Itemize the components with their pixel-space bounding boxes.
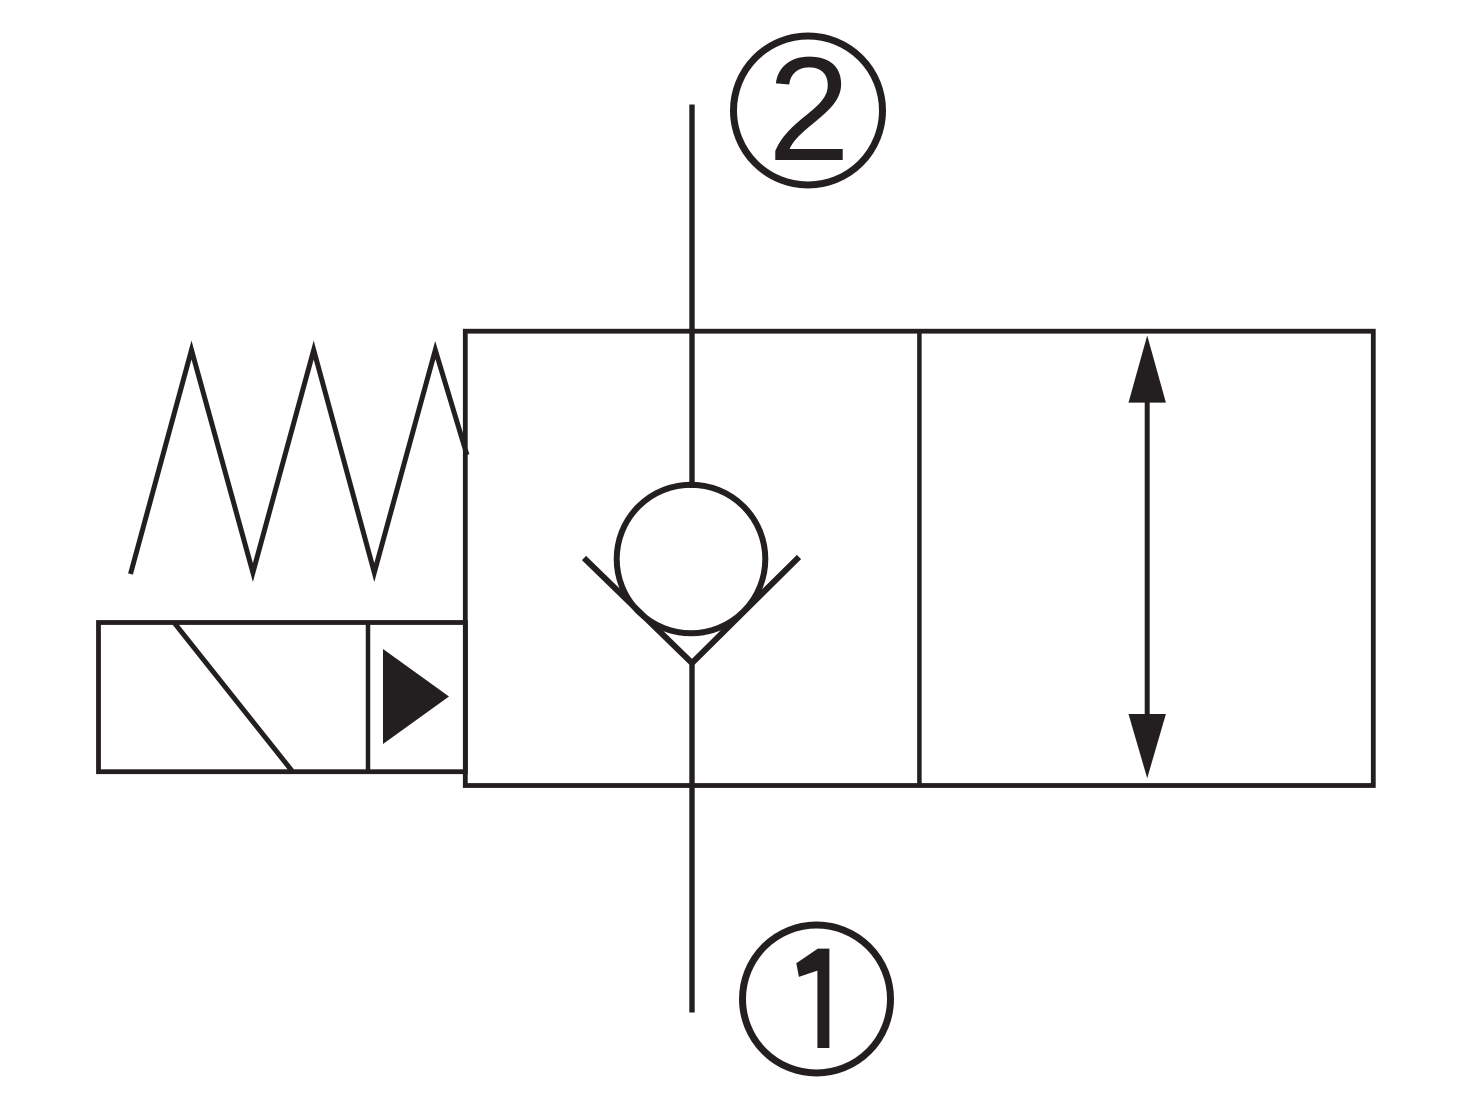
svg-text:2: 2: [768, 27, 850, 192]
